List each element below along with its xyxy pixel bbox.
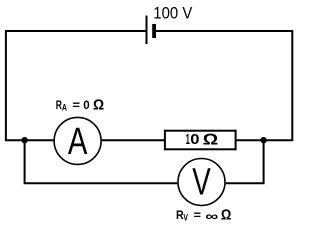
svg-text:1: 1 bbox=[186, 132, 190, 148]
svg-text:100 V: 100 V bbox=[153, 5, 192, 23]
svg-text:Ω: Ω bbox=[203, 131, 219, 148]
svg-text:V: V bbox=[192, 161, 211, 204]
svg-text:A: A bbox=[62, 103, 68, 113]
svg-text:Ω: Ω bbox=[93, 97, 104, 113]
svg-text:V: V bbox=[183, 213, 188, 223]
svg-text:∞: ∞ bbox=[205, 208, 218, 223]
svg-text:0: 0 bbox=[190, 132, 199, 148]
svg-text:0: 0 bbox=[83, 98, 90, 112]
svg-text:Ω: Ω bbox=[221, 208, 232, 224]
svg-text:A: A bbox=[68, 120, 88, 163]
svg-text:=: = bbox=[72, 98, 80, 112]
svg-text:=: = bbox=[194, 208, 201, 222]
